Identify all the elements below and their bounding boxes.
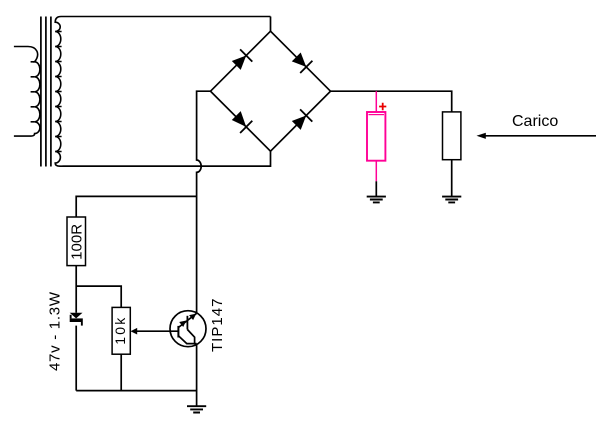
ground (capacitor) <box>367 197 386 203</box>
wire: bottom rail from secondary to bridge bottom <box>63 151 271 166</box>
capacitor C1 (electrolytic, pink) <box>367 112 385 161</box>
wiper arrow of 10k <box>131 328 138 335</box>
wire: load resistor to ground <box>451 160 453 197</box>
diode D2 (upper-right edge) <box>292 53 313 74</box>
diode D4 (lower-right edge) <box>292 109 313 129</box>
svg-text:Carico: Carico <box>512 113 558 130</box>
resistor R1 100R <box>67 217 86 266</box>
svg-text:100R: 100R <box>69 224 86 260</box>
capacitor C1 plus sign <box>379 103 386 110</box>
ground (load) <box>442 197 461 203</box>
wire: top rail from secondary to bridge top <box>270 17 272 32</box>
transformer primary winding <box>14 47 40 137</box>
capacitor C1 positive wire (pink) <box>375 91 377 112</box>
svg-text:TIP147: TIP147 <box>209 299 226 353</box>
wire: bottom rail of regulator <box>76 390 196 392</box>
resistor R-load <box>443 112 461 160</box>
svg-text:10k: 10k <box>112 317 128 345</box>
transformer T1 <box>14 17 271 167</box>
wire: zener to bottom rail <box>75 326 77 391</box>
wire: transistor collector to ground <box>196 344 198 407</box>
transistor Q1 TIP147 <box>170 311 206 347</box>
zener diode DZ1 <box>70 313 83 326</box>
ground (main) <box>187 406 206 412</box>
diode bridge: diamond <box>211 31 331 151</box>
diode D3 (lower-left edge) <box>232 111 253 133</box>
wire: bridge left vertex to regulator vertical rail (with hop) <box>197 91 211 313</box>
transformer core <box>41 17 51 167</box>
capacitor C1 negative wire (pink then black) <box>375 161 377 182</box>
wire: 100R to zener / branch to 10k <box>76 266 121 313</box>
svg-text:47v - 1.3W: 47v - 1.3W <box>46 291 63 371</box>
transformer secondary winding <box>55 17 270 167</box>
wire: branch to 100R <box>76 196 196 217</box>
wire: wiper to transistor base <box>137 330 178 332</box>
wire: 10k bottom to bottom rail <box>120 354 122 390</box>
potentiometer R2 10k <box>112 307 130 354</box>
wire: bridge right vertex to + rail <box>331 91 452 112</box>
diode D1 (upper-left edge) <box>232 49 253 70</box>
arrow Carico (points at load) <box>484 135 596 137</box>
